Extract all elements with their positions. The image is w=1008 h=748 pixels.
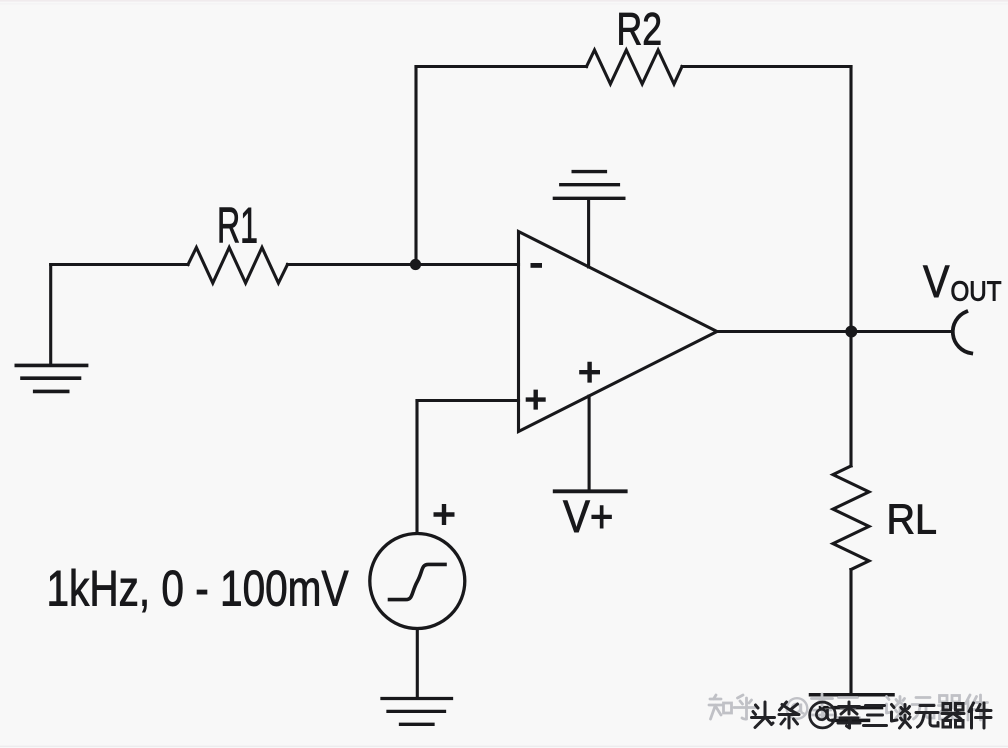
ground G2 bars	[554, 172, 623, 199]
svg-text:V+: V+	[563, 491, 614, 542]
source polarity plus marker	[434, 504, 455, 525]
resistor R1	[188, 248, 288, 284]
wire right vertical R2 to output node	[849, 67, 852, 332]
wire feedback vertical	[414, 67, 417, 265]
resistor RL	[833, 466, 869, 570]
wire left drop to ground	[49, 265, 52, 364]
ground G3 bars	[382, 699, 452, 725]
svg-text:R2: R2	[617, 3, 663, 54]
resistor R2	[587, 50, 683, 84]
wire non-inverting input horizontal	[417, 399, 519, 402]
svg-text:RL: RL	[887, 496, 938, 543]
V+ rail stem	[588, 396, 591, 490]
wire input left horizontal	[51, 263, 188, 266]
svg-text:OUT: OUT	[951, 275, 1002, 306]
node junction output	[845, 326, 857, 338]
wire top right segment	[682, 65, 851, 68]
wire top left segment	[416, 65, 587, 68]
wire RL top	[849, 332, 852, 467]
V+ rail bar	[555, 489, 626, 493]
output terminal arc	[953, 312, 971, 354]
op-amp V+ plus marker	[579, 362, 600, 383]
wire non-inverting drop to source	[415, 401, 418, 534]
wire output	[717, 330, 952, 333]
wire R1 to inverting input	[288, 263, 519, 266]
watermark light: 知乎 @李三谈元器件	[709, 694, 988, 720]
watermark dark: 头条 @李三谈元器件	[752, 702, 992, 728]
op-amp U1	[519, 232, 718, 432]
wire RL bottom	[849, 570, 852, 695]
ground G1 left	[16, 365, 86, 391]
wire source to ground	[416, 629, 419, 698]
ground G2 above op-amp stem	[587, 199, 590, 268]
svg-text:V: V	[923, 256, 950, 307]
svg-text:1kHz, 0 - 100mV: 1kHz, 0 - 100mV	[47, 560, 349, 617]
source VS sigmoid symbol	[390, 564, 446, 599]
node junction inverting input	[410, 259, 421, 270]
ground G4 bars	[811, 695, 894, 721]
op-amp plus pin marker	[526, 390, 546, 410]
source VS circle	[370, 534, 465, 629]
op-amp minus pin marker	[531, 263, 543, 268]
svg-text:R1: R1	[217, 198, 258, 254]
